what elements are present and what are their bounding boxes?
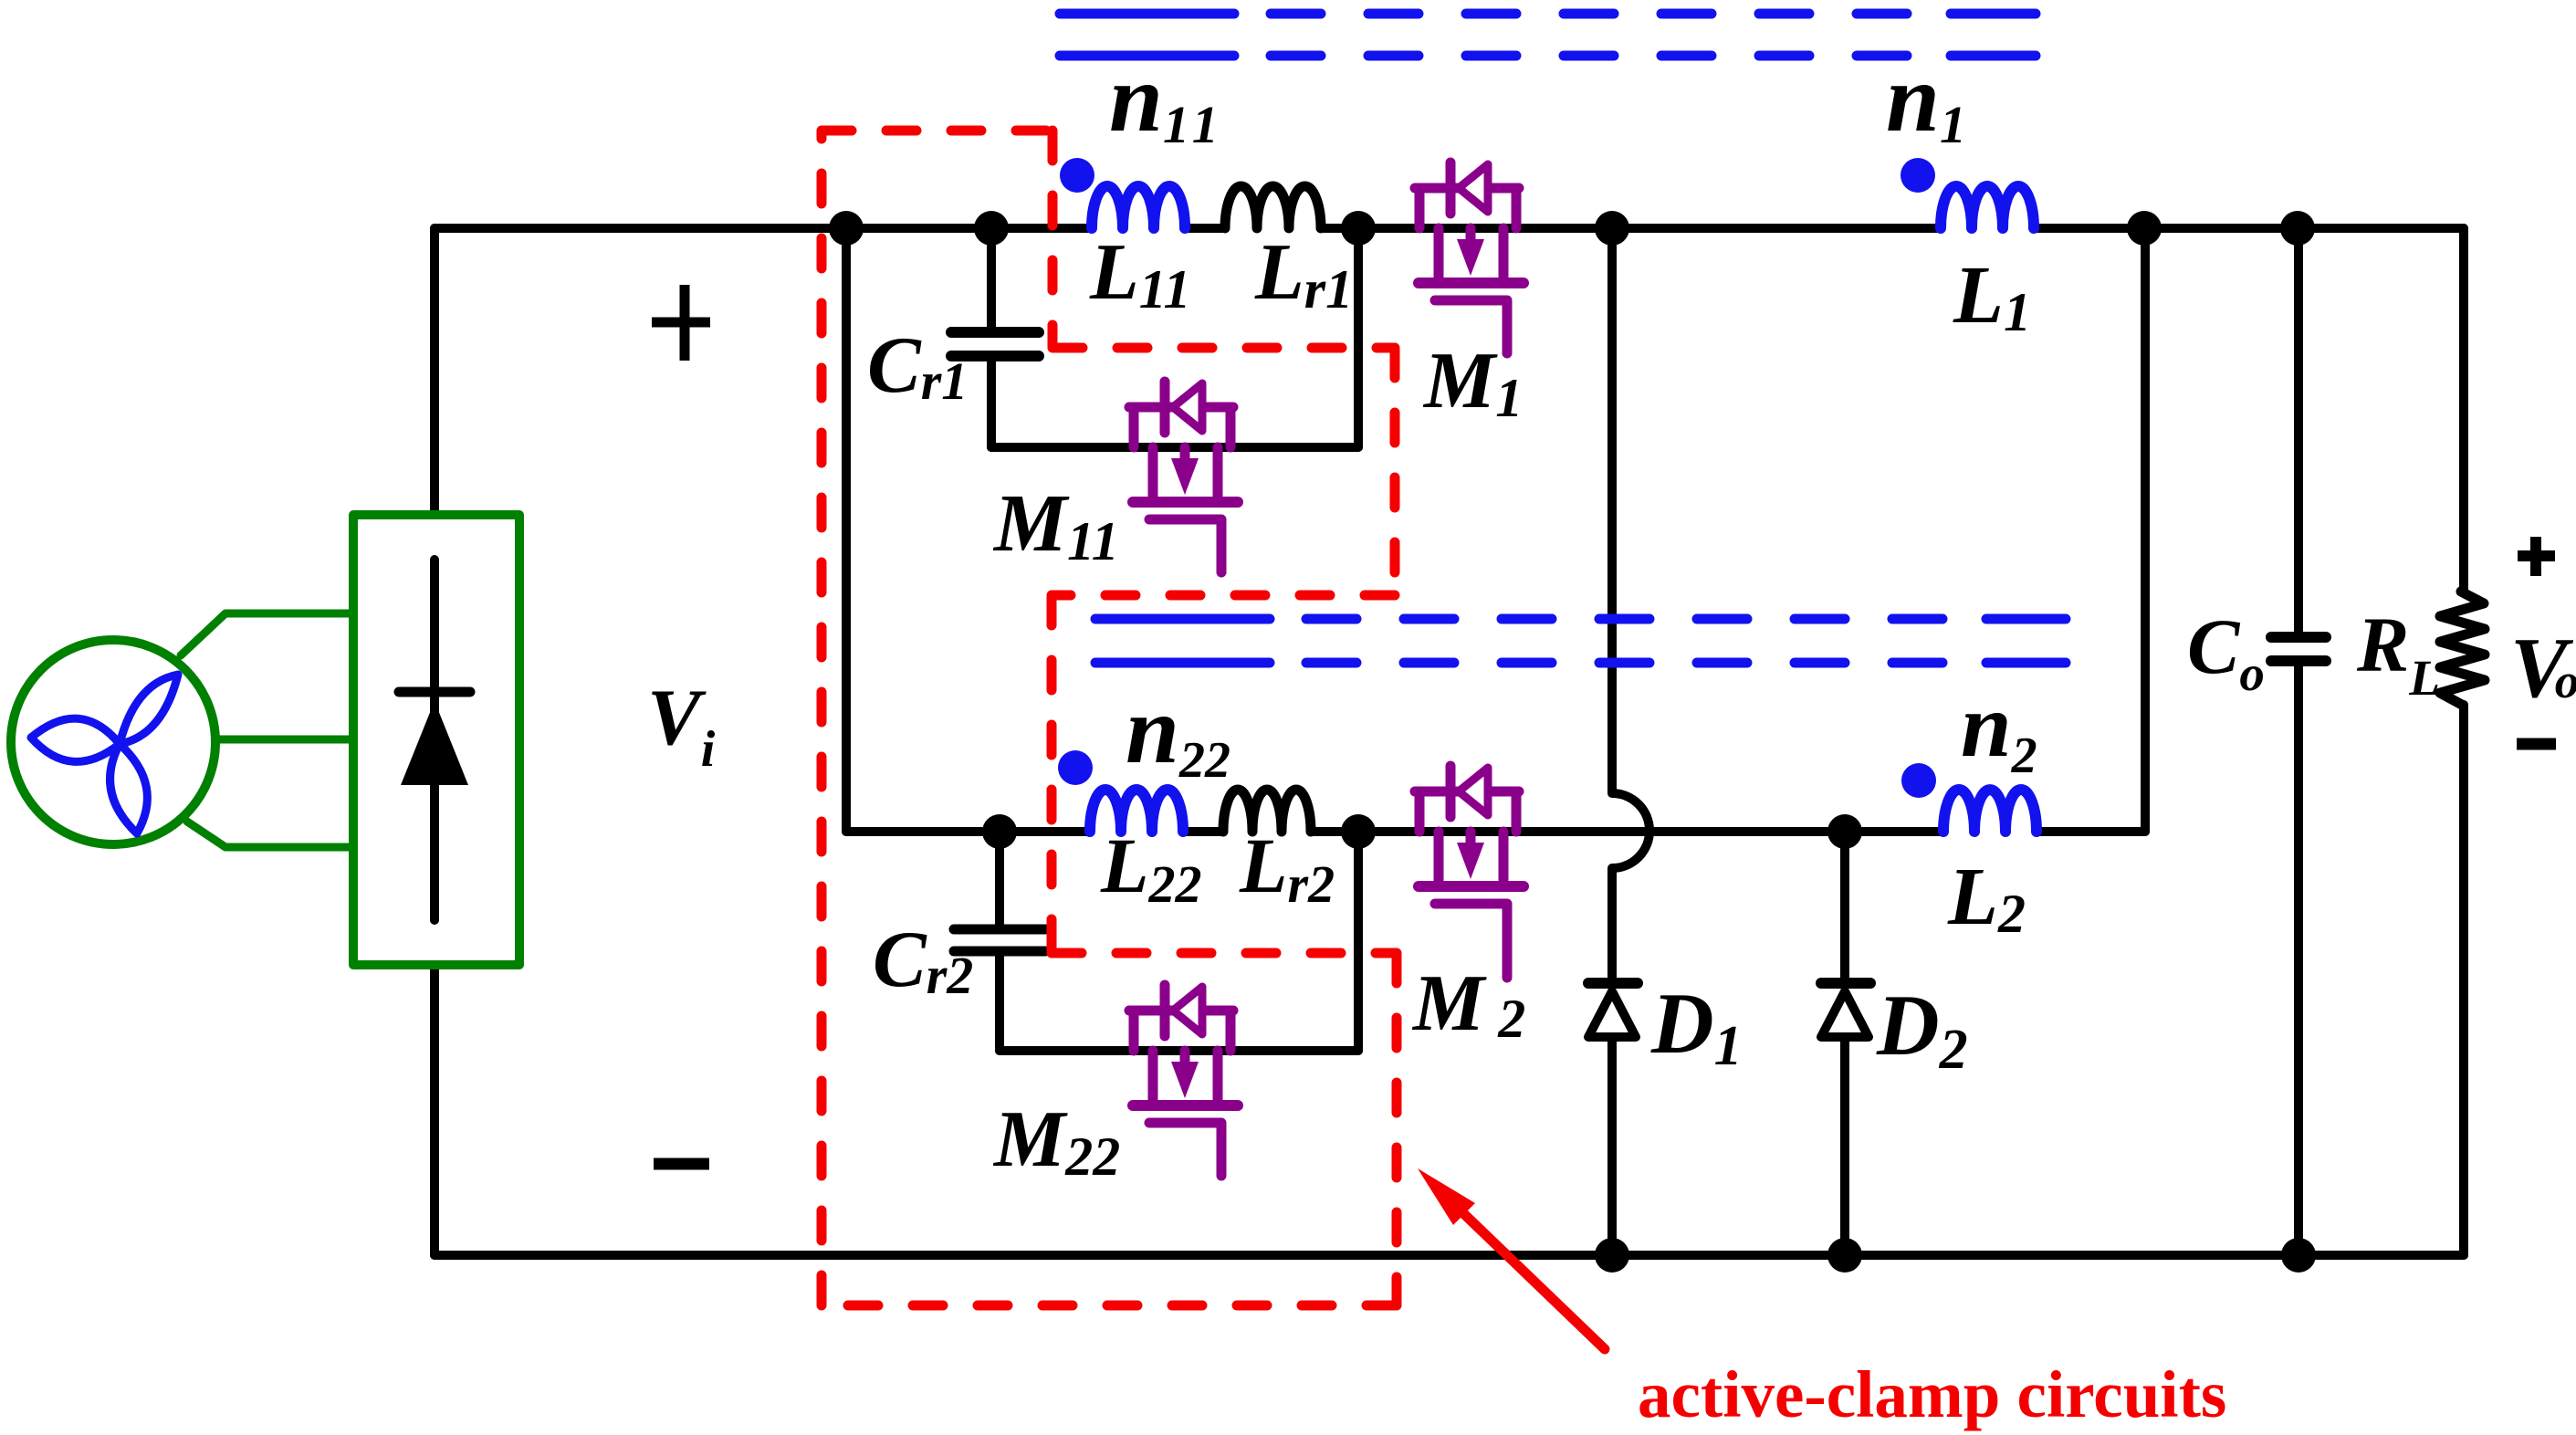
rectifier diode	[399, 692, 470, 785]
inductor winding L22 primary n22	[1090, 790, 1183, 832]
junction node Cr2	[982, 814, 1017, 849]
transformer core 1 line A	[1060, 9, 2036, 19]
inductor winding L11 primary n11	[1092, 186, 1185, 228]
svg-text:n11: n11	[1109, 45, 1224, 154]
wire clamp1 loop bottom	[991, 443, 1358, 452]
diode D1	[1588, 983, 1638, 1037]
polarity dot n1	[1901, 158, 1935, 193]
wire Cr1 branch	[987, 228, 996, 447]
svg-text:Vo: Vo	[2510, 621, 2576, 716]
svg-text:L11: L11	[1089, 228, 1190, 319]
MOSFET M2	[1415, 766, 1524, 978]
polarity dot n11	[1060, 158, 1094, 193]
svg-text:L1: L1	[1953, 250, 2031, 342]
junction node D1 top	[1595, 211, 1629, 246]
svg-text:active-clamp circuits: active-clamp circuits	[1638, 1357, 2226, 1431]
svg-text:M22: M22	[992, 1095, 1120, 1187]
annotation arrow	[1418, 1168, 1605, 1349]
wire right output vertical	[2459, 228, 2468, 1255]
wire lower branch rail	[846, 827, 2145, 836]
MOSFET M22	[1129, 985, 1238, 1176]
wire Cr2 branch	[995, 832, 1004, 1051]
turbine wire top	[181, 613, 353, 655]
turbine wire bottom	[187, 822, 353, 847]
junction node n2 riser top	[2127, 211, 2162, 246]
MOSFET M1	[1415, 162, 1524, 353]
junction node D2	[1827, 814, 1862, 849]
svg-text:n2: n2	[1961, 675, 2037, 784]
svg-text:D2: D2	[1876, 977, 1968, 1081]
svg-text:Co: Co	[2187, 602, 2265, 701]
resistor RL zigzag	[2440, 592, 2485, 705]
junction node Cr1	[974, 211, 1009, 246]
capacitor Cr2	[954, 929, 1045, 951]
minus sign output	[2517, 738, 2556, 750]
svg-text:M11: M11	[992, 478, 1119, 571]
transformer core 2 line A	[1095, 614, 2066, 624]
capacitor Cr1	[951, 332, 1039, 356]
turbine blade down	[110, 744, 148, 833]
plus sign input	[652, 285, 710, 361]
junction node after Lr2	[1341, 814, 1376, 849]
wire clamp1 loop right	[1354, 228, 1363, 447]
wire left input vertical	[430, 228, 439, 1255]
turbine blade upper-right	[120, 675, 178, 744]
junction node D2 bottom	[1827, 1238, 1862, 1273]
svg-text:D1: D1	[1650, 975, 1743, 1077]
rectifier box	[353, 515, 519, 965]
transformer core 2 line B	[1095, 658, 2066, 668]
wire top rail	[435, 224, 2464, 233]
wire D1 branch with hop over lower rail	[1612, 228, 1649, 1255]
inductor winding Lr2	[1223, 790, 1311, 832]
svg-text:n1: n1	[1886, 45, 1966, 154]
minus sign input	[654, 1158, 709, 1170]
svg-text:Vi: Vi	[647, 674, 716, 778]
transformer core 1 line B	[1060, 51, 2036, 61]
wire D2 branch	[1840, 832, 1849, 1255]
plus sign output	[2518, 537, 2555, 576]
svg-text:n22: n22	[1126, 676, 1230, 789]
inductor winding n1 secondary	[1941, 186, 2034, 228]
junction node after Lr1	[1341, 211, 1376, 246]
wire clamp2 loop bottom	[1000, 1046, 1358, 1055]
MOSFET M11	[1129, 382, 1238, 572]
polarity dot n22	[1058, 750, 1093, 785]
junction node top rail input	[829, 211, 864, 246]
capacitor Co	[2271, 637, 2326, 661]
turbine blade left	[31, 718, 120, 761]
svg-text:Lr1: Lr1	[1254, 228, 1353, 319]
svg-text:L2: L2	[1947, 852, 2026, 944]
wire clamp2 loop right	[1354, 832, 1363, 1051]
diode D2	[1821, 983, 1870, 1037]
junction node Co top	[2280, 211, 2315, 246]
svg-text:RL: RL	[2356, 601, 2440, 706]
wire riser n2 output to top rail	[2141, 228, 2150, 832]
junction node D1 bottom	[1595, 1238, 1629, 1273]
wire bottom rail	[435, 1251, 2464, 1260]
junction node Co bottom	[2281, 1238, 2316, 1273]
inductor winding Lr1	[1225, 186, 1321, 228]
wire riser input to lower branch	[842, 228, 851, 832]
active-clamp dashed boundary	[822, 131, 1397, 1305]
wire Co branch	[2294, 228, 2303, 1255]
turbine wire middle	[215, 736, 353, 744]
wind turbine circle	[11, 640, 215, 844]
polarity dot n2	[1901, 763, 1936, 798]
inductor winding n2 secondary	[1943, 790, 2037, 832]
